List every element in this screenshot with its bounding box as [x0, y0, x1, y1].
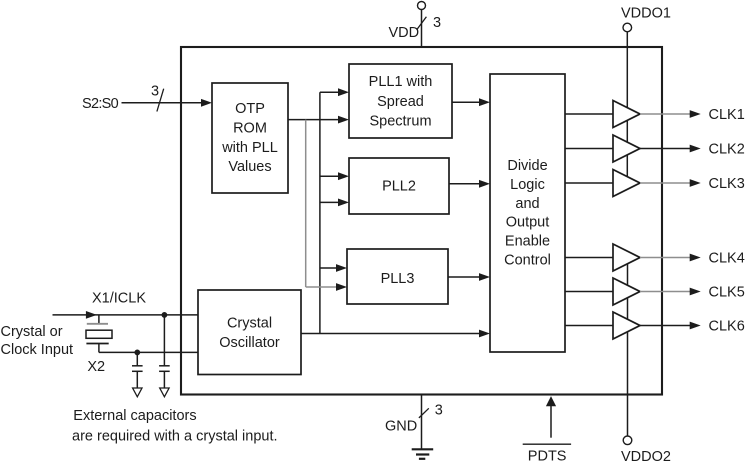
- svg-text:Clock Input: Clock Input: [1, 342, 74, 358]
- svg-text:and: and: [515, 196, 539, 212]
- svg-text:Logic: Logic: [510, 177, 545, 193]
- svg-text:CLK2: CLK2: [709, 142, 745, 158]
- pin VDDO2 circle: [623, 436, 632, 445]
- buffer CLK3: [613, 170, 640, 197]
- block PLL1: [349, 64, 452, 138]
- wire CLK2 output: [640, 148, 690, 150]
- wire VDDO1 rail: [626, 32, 628, 183]
- wire B to PLL1 upper input: [320, 91, 339, 93]
- wire CLK1 output (gray): [640, 113, 690, 115]
- svg-text:Spread: Spread: [377, 94, 424, 110]
- svg-text:Values: Values: [228, 159, 271, 175]
- svg-text:are required with a crystal in: are required with a crystal input.: [72, 428, 278, 444]
- wire CLK5 output (gray): [640, 291, 690, 293]
- svg-text:CLK6: CLK6: [709, 319, 745, 335]
- PDTS overline: [523, 443, 571, 445]
- buffer CLK5: [613, 278, 640, 305]
- svg-text:PLL3: PLL3: [381, 271, 415, 287]
- bus slash VDD: [417, 17, 426, 29]
- svg-text:CLK5: CLK5: [709, 285, 745, 301]
- block OTP ROM: [212, 83, 288, 193]
- svg-text:S2:S0: S2:S0: [82, 96, 119, 112]
- block Crystal Oscillator: [198, 290, 301, 375]
- wire CLK4 output (gray): [640, 257, 690, 259]
- svg-text:External capacitors: External capacitors: [73, 408, 196, 424]
- pin VDDO1 circle: [623, 23, 632, 32]
- capacitor C1 (on X2): [132, 352, 143, 396]
- svg-text:Crystal: Crystal: [227, 315, 272, 331]
- svg-text:Control: Control: [504, 253, 551, 269]
- capacitor C2 (on X1): [159, 315, 170, 397]
- wire X1/ICLK input: [53, 314, 199, 316]
- wire A to PLL3 lower input (gray): [306, 286, 337, 288]
- wire B to PLL2 upper input: [320, 175, 339, 177]
- svg-text:PLL2: PLL2: [382, 179, 416, 195]
- svg-text:Spectrum: Spectrum: [369, 114, 431, 130]
- wire B to PLL2 lower input: [320, 201, 339, 203]
- wire bus A vertical (gray): [305, 120, 307, 287]
- wire S2:S0 input: [122, 102, 203, 104]
- block PLL3: [347, 249, 448, 304]
- svg-text:VDD: VDD: [389, 25, 420, 41]
- svg-text:CLK1: CLK1: [709, 107, 745, 123]
- bus slash S2:S0: [157, 89, 164, 112]
- wires divide logic to buffers: [565, 113, 613, 115]
- node X2 junction: [134, 350, 140, 356]
- svg-text:Enable: Enable: [505, 234, 550, 250]
- wire X2 line: [99, 351, 198, 353]
- svg-text:3: 3: [435, 403, 443, 419]
- wire OTP output to PLL1 lower input: [288, 119, 339, 121]
- svg-text:PDTS: PDTS: [528, 449, 567, 464]
- svg-text:ROM: ROM: [233, 121, 267, 137]
- wire CLK3 output (gray): [640, 182, 690, 184]
- wire GND drop: [421, 395, 423, 450]
- svg-text:PLL1 with: PLL1 with: [369, 74, 433, 90]
- crystal Y1: [86, 315, 112, 353]
- buffer CLK6: [613, 312, 640, 339]
- buffer CLK2: [613, 135, 640, 162]
- svg-text:X2: X2: [87, 359, 105, 375]
- wire PLL3 output: [448, 276, 480, 278]
- svg-text:Oscillator: Oscillator: [219, 335, 280, 351]
- wire B to PLL3 upper input: [320, 267, 337, 269]
- svg-text:3: 3: [433, 15, 441, 31]
- wire PDTS input arrow: [550, 405, 552, 438]
- wire VDDO2 rail: [627, 258, 629, 436]
- svg-text:Output: Output: [506, 215, 550, 231]
- svg-text:VDDO1: VDDO1: [621, 6, 671, 22]
- buffer CLK1: [613, 101, 640, 128]
- svg-text:VDDO2: VDDO2: [621, 449, 671, 464]
- block PLL2: [349, 158, 449, 214]
- svg-text:OTP: OTP: [235, 101, 265, 117]
- svg-text:GND: GND: [385, 419, 417, 435]
- bus slash GND: [419, 408, 429, 418]
- wire bus B vertical: [319, 92, 321, 333]
- svg-text:X1/ICLK: X1/ICLK: [92, 291, 146, 307]
- ground symbol: [412, 449, 434, 459]
- wire PLL2 output: [449, 183, 480, 185]
- svg-text:CLK3: CLK3: [709, 176, 745, 192]
- svg-text:Crystal or: Crystal or: [1, 324, 63, 340]
- wire PLL1 output: [452, 101, 480, 103]
- svg-text:3: 3: [151, 84, 159, 100]
- wire crystal oscillator output to divide logic: [301, 333, 480, 335]
- svg-text:Divide: Divide: [507, 158, 547, 174]
- wire CLK6 output: [640, 325, 690, 327]
- pin VDD circle: [418, 2, 426, 10]
- buffer CLK4: [613, 244, 640, 271]
- svg-text:CLK4: CLK4: [709, 251, 745, 267]
- node X1 junction: [162, 312, 168, 318]
- chip boundary U1: [181, 47, 662, 395]
- svg-text:with PLL: with PLL: [221, 140, 278, 156]
- block Divide Logic and Output Enable Control: [490, 74, 565, 352]
- wire VDD drop: [421, 10, 423, 48]
